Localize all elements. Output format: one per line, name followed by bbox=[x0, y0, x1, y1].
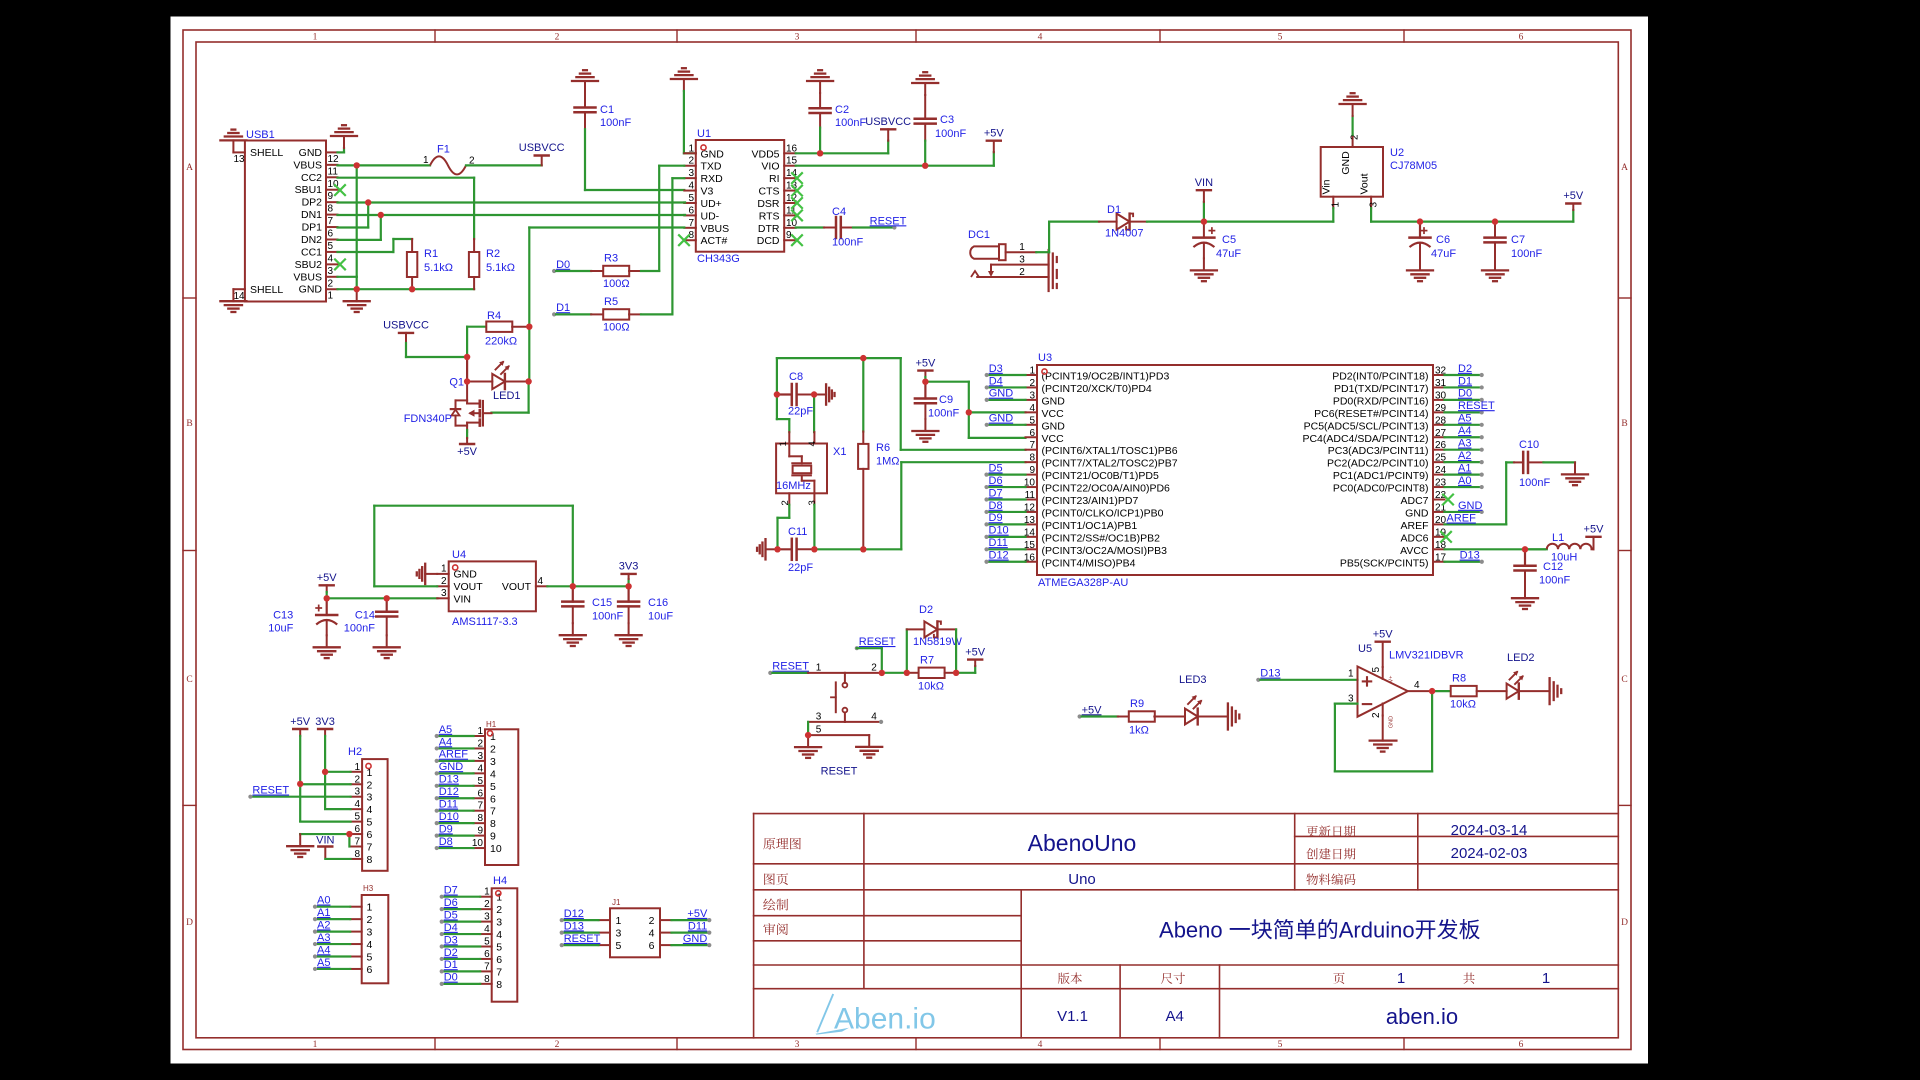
svg-text:100nF: 100nF bbox=[1539, 575, 1570, 587]
power flag USBVCC at R4 bbox=[383, 320, 429, 358]
wire U3 pin15 bbox=[987, 548, 1026, 550]
svg-text:1: 1 bbox=[1019, 242, 1025, 253]
wire gate net left bbox=[492, 412, 529, 414]
capacitor C8 bbox=[777, 384, 814, 405]
svg-text:D13: D13 bbox=[564, 920, 584, 932]
power flag +5V below Q1 bbox=[457, 438, 478, 458]
svg-text:+5V: +5V bbox=[984, 128, 1005, 140]
svg-text:D1: D1 bbox=[444, 959, 458, 971]
svg-text:2: 2 bbox=[484, 899, 490, 910]
svg-text:RESET: RESET bbox=[252, 785, 289, 797]
title label 绘制 bbox=[763, 898, 788, 910]
svg-text:22pF: 22pF bbox=[788, 406, 813, 418]
svg-text:2: 2 bbox=[1371, 712, 1382, 718]
junction VDD5/C2 bbox=[817, 150, 823, 156]
svg-text:B: B bbox=[1621, 419, 1627, 429]
svg-text:4: 4 bbox=[367, 804, 373, 816]
svg-text:1: 1 bbox=[1331, 202, 1342, 208]
junction DP2/DP1 bbox=[365, 199, 371, 205]
svg-text:UD-: UD- bbox=[701, 210, 720, 222]
title label 尺寸 bbox=[1161, 973, 1185, 984]
svg-text:1: 1 bbox=[1542, 970, 1550, 987]
wire XTAL1 right down bbox=[900, 358, 902, 450]
svg-text:C13: C13 bbox=[273, 610, 293, 622]
wire U3 pin11 bbox=[987, 498, 1026, 500]
wire C9 to VCC bbox=[925, 382, 968, 438]
svg-text:5: 5 bbox=[1029, 415, 1035, 426]
svg-text:7: 7 bbox=[367, 842, 373, 854]
svg-text:5.1kΩ: 5.1kΩ bbox=[486, 262, 515, 274]
wire U2 Vin down bbox=[1332, 208, 1334, 221]
svg-text:A2: A2 bbox=[1458, 450, 1471, 462]
wire XTAL2 rail bbox=[814, 548, 901, 550]
svg-text:22pF: 22pF bbox=[788, 562, 813, 574]
svg-text:7: 7 bbox=[328, 216, 334, 227]
svg-text:6: 6 bbox=[484, 949, 490, 960]
wire +5V to C14 bbox=[327, 597, 387, 599]
net label D9 (U3 pin13) bbox=[984, 512, 1002, 526]
net label D6 (H4) bbox=[440, 897, 458, 911]
svg-text:GND: GND bbox=[1042, 420, 1066, 432]
wire D2 up left bbox=[906, 629, 908, 672]
svg-text:PC4(ADC4/SDA/PCINT12): PC4(ADC4/SDA/PCINT12) bbox=[1302, 433, 1428, 445]
wire H1 pin6 bbox=[437, 797, 474, 799]
svg-text:3: 3 bbox=[367, 927, 373, 939]
svg-text:1kΩ: 1kΩ bbox=[1129, 725, 1149, 737]
wire H2 gnd down bbox=[299, 833, 301, 835]
svg-text:A1: A1 bbox=[317, 907, 330, 919]
svg-text:R8: R8 bbox=[1452, 673, 1466, 685]
wire VBUS pin11 bbox=[338, 164, 431, 166]
svg-text:X1: X1 bbox=[833, 446, 846, 458]
svg-text:2: 2 bbox=[688, 156, 694, 167]
svg-text:5: 5 bbox=[328, 241, 334, 252]
wire U3 pin28 bbox=[1445, 424, 1482, 426]
svg-text:RI: RI bbox=[769, 173, 780, 185]
svg-text:C14: C14 bbox=[355, 610, 375, 622]
resistor R2 bbox=[469, 239, 479, 289]
net label D12 (H1) bbox=[435, 786, 459, 800]
svg-text:R5: R5 bbox=[604, 296, 618, 308]
wire button pin2 bbox=[845, 672, 882, 674]
svg-text:CH343G: CH343G bbox=[697, 253, 740, 265]
svg-text:PC3(ADC3/PCINT11): PC3(ADC3/PCINT11) bbox=[1328, 445, 1429, 457]
svg-text:DP1: DP1 bbox=[302, 222, 323, 234]
svg-text:AMS1117-3.3: AMS1117-3.3 bbox=[452, 616, 518, 628]
net label GND (J1) bbox=[683, 933, 712, 947]
svg-text:7: 7 bbox=[688, 218, 694, 229]
ground under C14 bbox=[374, 635, 400, 658]
wire H3 pin5 bbox=[315, 955, 350, 957]
svg-text:+5V: +5V bbox=[1373, 629, 1394, 641]
svg-text:2: 2 bbox=[490, 743, 496, 755]
svg-text:Vin: Vin bbox=[1321, 179, 1333, 194]
wire J1 pin3 bbox=[562, 931, 599, 933]
wire DN1 pin7 bbox=[338, 214, 686, 216]
LED LED2 bbox=[1507, 671, 1524, 699]
power flag +5V (L1) bbox=[1587, 537, 1601, 550]
svg-text:D5: D5 bbox=[444, 909, 458, 921]
svg-text:D7: D7 bbox=[444, 885, 458, 897]
svg-text:D11: D11 bbox=[688, 920, 707, 932]
svg-text:B: B bbox=[186, 419, 192, 429]
junction AVCC/C12 bbox=[1522, 546, 1528, 552]
net label GND (U3 pin3) bbox=[985, 388, 1014, 402]
svg-text:3: 3 bbox=[477, 751, 483, 762]
net label D11 (H1) bbox=[435, 799, 458, 813]
svg-text:3: 3 bbox=[328, 266, 334, 277]
wire R5 to RXD bbox=[641, 313, 672, 315]
svg-text:USBVCC: USBVCC bbox=[865, 116, 911, 128]
title label 物料编码 bbox=[1306, 873, 1355, 885]
wire C2 down to VDD5 row bbox=[819, 128, 821, 154]
svg-text:4: 4 bbox=[807, 441, 818, 446]
power flag +5V at VIO bbox=[984, 128, 1005, 166]
svg-text:6: 6 bbox=[354, 824, 360, 835]
svg-text:V3: V3 bbox=[701, 186, 714, 198]
svg-text:U4: U4 bbox=[452, 549, 466, 561]
svg-text:AREF: AREF bbox=[1400, 520, 1428, 532]
capacitor C7 bbox=[1485, 222, 1506, 259]
svg-text:CC2: CC2 bbox=[301, 172, 322, 184]
net label D7 (H4) bbox=[440, 885, 458, 899]
svg-text:D1: D1 bbox=[1107, 204, 1121, 216]
svg-text:C11: C11 bbox=[788, 526, 807, 538]
wire USBVCC to Q1 source bbox=[406, 356, 467, 358]
capacitor C9 bbox=[915, 382, 936, 419]
junction C13 bbox=[324, 595, 330, 601]
svg-text:PC2(ADC2/PCINT10): PC2(ADC2/PCINT10) bbox=[1327, 458, 1429, 470]
wire VCC pin6 bbox=[969, 437, 1026, 439]
wire AVCC to L1 bbox=[1525, 548, 1547, 550]
resistor R9 bbox=[1082, 711, 1155, 721]
wire pin2 to D2 junction bbox=[882, 672, 907, 674]
svg-text:CC1: CC1 bbox=[301, 246, 322, 258]
power flag 3V3 (H2) bbox=[315, 716, 335, 736]
svg-text:AREF: AREF bbox=[1447, 513, 1477, 525]
wire H1 pin7 bbox=[437, 810, 474, 812]
net label D10 (H1) bbox=[435, 811, 459, 825]
svg-text:A0: A0 bbox=[1458, 475, 1471, 487]
svg-text:RTS: RTS bbox=[759, 210, 780, 222]
wire H4 pin6 bbox=[442, 958, 481, 960]
svg-text:3: 3 bbox=[816, 712, 822, 723]
svg-text:A: A bbox=[186, 163, 193, 173]
junction C14 bbox=[384, 595, 390, 601]
svg-text:DCD: DCD bbox=[757, 235, 780, 247]
svg-text:ACT#: ACT# bbox=[701, 235, 728, 247]
wire CC1 pin4 bbox=[338, 251, 394, 253]
net label D2 (H4) bbox=[440, 947, 458, 961]
svg-text:A1: A1 bbox=[1458, 462, 1471, 474]
svg-text:U3: U3 bbox=[1038, 352, 1052, 364]
svg-text:FDN340P: FDN340P bbox=[404, 413, 452, 425]
wire J1 pin6 bbox=[672, 944, 710, 946]
wire LED1 cathode bbox=[505, 381, 529, 383]
svg-text:Abeno: Abeno bbox=[1159, 918, 1229, 943]
svg-text:1: 1 bbox=[688, 143, 694, 154]
wire VBUS net vertical bbox=[528, 327, 530, 382]
svg-text:Q1: Q1 bbox=[449, 377, 464, 389]
wire U3 pin23 bbox=[1445, 486, 1482, 488]
svg-text:D5: D5 bbox=[989, 462, 1003, 474]
junction VIN/C5 bbox=[1201, 218, 1207, 224]
wire U4 pin4 out bbox=[547, 585, 628, 587]
power flag +5V (U4) bbox=[317, 572, 338, 598]
junction R4 right bbox=[526, 324, 532, 330]
svg-text:AVCC: AVCC bbox=[1400, 545, 1429, 557]
net label A2 (U3 pin25) bbox=[1458, 450, 1484, 464]
junction LED1 right bbox=[525, 378, 531, 384]
ground above C1 bbox=[572, 70, 598, 93]
net label A1 (U3 pin24) bbox=[1458, 462, 1484, 476]
svg-text:LED3: LED3 bbox=[1179, 674, 1207, 686]
wire U3 pin20 AREF bbox=[1445, 462, 1507, 524]
connector J1 bbox=[599, 908, 672, 957]
IC U4 AMS1117-3.3 bbox=[437, 561, 547, 611]
wire H1 pin10 bbox=[437, 847, 474, 849]
svg-text:C12: C12 bbox=[1543, 561, 1563, 573]
svg-text:5: 5 bbox=[484, 937, 490, 948]
net label A5 (U3 pin28) bbox=[1458, 413, 1484, 427]
no-connect X on U1 pin11 bbox=[792, 210, 802, 220]
svg-text:R3: R3 bbox=[604, 253, 618, 265]
wire U3 pin1 bbox=[987, 374, 1026, 376]
svg-text:6: 6 bbox=[649, 940, 655, 952]
svg-text:8: 8 bbox=[1029, 453, 1035, 464]
svg-text:2: 2 bbox=[871, 663, 877, 674]
svg-text:+5V: +5V bbox=[457, 446, 478, 458]
svg-text:C8: C8 bbox=[789, 371, 803, 383]
wire Q1 drain down bbox=[466, 357, 468, 382]
svg-text:3: 3 bbox=[795, 1040, 800, 1050]
svg-text:D: D bbox=[1621, 918, 1628, 928]
junction RESET/pin2 bbox=[879, 670, 885, 676]
svg-text:2: 2 bbox=[354, 774, 360, 785]
ground at USB1 pin13 bbox=[220, 130, 246, 153]
svg-text:4: 4 bbox=[871, 712, 877, 723]
svg-text:9: 9 bbox=[477, 826, 483, 837]
capacitor C13 polarized bbox=[316, 598, 337, 635]
wire VCC pin4 bbox=[969, 411, 1026, 413]
power flag +5V (U5) bbox=[1373, 629, 1394, 668]
svg-text:1: 1 bbox=[1348, 669, 1354, 680]
svg-text:3: 3 bbox=[795, 33, 800, 43]
svg-text:D6: D6 bbox=[444, 897, 458, 909]
svg-text:U1: U1 bbox=[697, 128, 711, 140]
resistor R7 bbox=[907, 668, 945, 678]
wire gate net down bbox=[527, 382, 529, 413]
svg-text:5: 5 bbox=[354, 812, 360, 823]
wire X1 pin4 down from C8 gnd bbox=[813, 395, 815, 433]
wire H4 pin8 bbox=[442, 983, 481, 985]
svg-text:100nF: 100nF bbox=[592, 611, 623, 623]
svg-text:3: 3 bbox=[441, 588, 447, 599]
connector H3 bbox=[350, 895, 388, 983]
wire CC2 vertical to R2 bbox=[473, 178, 475, 239]
svg-text:2: 2 bbox=[367, 779, 373, 791]
capacitor C16 bbox=[618, 586, 639, 623]
svg-text:PC0(ADC0/PCINT8): PC0(ADC0/PCINT8) bbox=[1333, 483, 1429, 495]
wire GND pin1 row bbox=[338, 288, 475, 290]
svg-text:RESET: RESET bbox=[821, 766, 858, 778]
svg-text:CTS: CTS bbox=[759, 186, 780, 198]
wire pin5 down bbox=[868, 735, 870, 747]
svg-text:A3: A3 bbox=[317, 932, 330, 944]
junction 3V3/H2 pin1 bbox=[322, 769, 328, 775]
svg-text:+5V: +5V bbox=[290, 716, 311, 728]
junction C16/3V3 bbox=[625, 583, 631, 589]
svg-text:H1: H1 bbox=[486, 720, 497, 729]
wire U3 pin18 AVCC bbox=[1445, 548, 1545, 550]
svg-text:VOUT: VOUT bbox=[454, 581, 484, 593]
svg-text:C16: C16 bbox=[648, 597, 668, 609]
svg-text:7: 7 bbox=[477, 801, 483, 812]
capacitor C2 bbox=[810, 93, 831, 128]
svg-text:U5: U5 bbox=[1358, 643, 1372, 655]
svg-text:LMV321IDBVR: LMV321IDBVR bbox=[1389, 650, 1464, 662]
no-connect X on SBU1 pin9 bbox=[335, 185, 345, 195]
svg-text:V+: V+ bbox=[1388, 676, 1394, 683]
wire VDD5 row bbox=[796, 152, 889, 154]
wire C1 to V3 bbox=[585, 129, 684, 190]
power flag +5V (H2) bbox=[290, 716, 311, 736]
IC U3 ATMEGA328P-AU bbox=[1024, 365, 1447, 575]
svg-text:7: 7 bbox=[484, 961, 490, 972]
svg-text:D12: D12 bbox=[439, 786, 459, 798]
svg-text:D4: D4 bbox=[989, 375, 1003, 387]
net label RESET (button) bbox=[855, 636, 896, 650]
svg-text:5: 5 bbox=[1278, 33, 1283, 43]
net label D4 (U3 pin2) bbox=[985, 375, 1003, 389]
wire H2 pin2 bbox=[300, 783, 350, 785]
wire C8 left vertical bbox=[776, 358, 778, 394]
svg-text:R4: R4 bbox=[487, 310, 501, 322]
wire U3 pin27 bbox=[1445, 436, 1482, 438]
svg-text:C4: C4 bbox=[832, 206, 846, 218]
svg-text:1: 1 bbox=[423, 155, 429, 166]
svg-text:D2: D2 bbox=[444, 947, 458, 959]
resistor R8 bbox=[1432, 686, 1507, 696]
wire CC1 jog bbox=[393, 239, 412, 252]
svg-text:USBVCC: USBVCC bbox=[383, 320, 429, 332]
svg-text:VCC: VCC bbox=[1042, 433, 1065, 445]
power flag VIN bbox=[1195, 177, 1213, 222]
svg-text:8: 8 bbox=[328, 204, 334, 215]
svg-text:PC1(ADC1/PCINT9): PC1(ADC1/PCINT9) bbox=[1333, 470, 1429, 482]
junction C11 right bbox=[811, 546, 817, 552]
svg-text:A3: A3 bbox=[1458, 438, 1471, 450]
net label A4 (U3 pin27) bbox=[1458, 425, 1484, 439]
wire +5V row bbox=[1371, 221, 1573, 223]
svg-text:100nF: 100nF bbox=[832, 237, 863, 249]
svg-text:1: 1 bbox=[441, 564, 447, 575]
svg-text:3: 3 bbox=[367, 792, 373, 804]
ground at USB1 pin12 bbox=[331, 125, 357, 148]
net label D13 (H1) bbox=[435, 774, 459, 788]
svg-text:1: 1 bbox=[484, 887, 490, 898]
svg-text:GND: GND bbox=[439, 761, 464, 773]
wire U3 pin3 bbox=[987, 399, 1026, 401]
svg-text:5: 5 bbox=[367, 952, 373, 964]
net label D3 (H4) bbox=[440, 934, 458, 948]
svg-text:(PCINT2/SS#/OC1B)PB2: (PCINT2/SS#/OC1B)PB2 bbox=[1042, 532, 1161, 544]
net label A3 (U3 pin26) bbox=[1458, 438, 1484, 452]
wire button pin1 bbox=[772, 672, 845, 674]
svg-text:SHELL: SHELL bbox=[250, 147, 283, 159]
net label GND (H1) bbox=[435, 761, 464, 775]
connector H4 bbox=[480, 887, 517, 1002]
no-connect X on U1 pin8 bbox=[679, 235, 689, 245]
svg-text:D12: D12 bbox=[989, 550, 1009, 562]
svg-text:ADC6: ADC6 bbox=[1400, 532, 1428, 544]
ground right of LED3 bbox=[1228, 704, 1239, 730]
svg-text:AbenoUno: AbenoUno bbox=[1028, 830, 1137, 856]
svg-text:100nF: 100nF bbox=[1519, 477, 1550, 489]
net label D0 (U3 pin30) bbox=[1458, 388, 1484, 402]
svg-text:D9: D9 bbox=[439, 823, 453, 835]
junction VIO/C3 bbox=[922, 163, 928, 169]
svg-text:Uno: Uno bbox=[1068, 871, 1096, 888]
capacitor C11 bbox=[778, 539, 815, 560]
junction VBUS bbox=[354, 162, 360, 168]
wire D1 to VIN junction bbox=[1147, 221, 1204, 223]
svg-text:100Ω: 100Ω bbox=[603, 322, 630, 334]
wire U3 pin29 bbox=[1445, 411, 1482, 413]
svg-text:D0: D0 bbox=[444, 972, 458, 984]
svg-text:GND: GND bbox=[683, 933, 708, 945]
net label +5V (J1) bbox=[687, 908, 711, 922]
net label A2 (H3) bbox=[313, 919, 331, 933]
wire H1 pin4 bbox=[437, 772, 474, 774]
svg-text:H2: H2 bbox=[348, 746, 362, 758]
svg-text:5: 5 bbox=[496, 942, 502, 954]
wire H4 pin2 bbox=[442, 908, 481, 910]
net label A4 (H3) bbox=[313, 944, 331, 958]
svg-text:VBUS: VBUS bbox=[293, 159, 322, 171]
ground above U2 bbox=[1340, 93, 1366, 116]
svg-text:7: 7 bbox=[354, 837, 360, 848]
svg-text:ADC7: ADC7 bbox=[1400, 495, 1428, 507]
transistor Q1 FDN340P bbox=[451, 382, 492, 433]
svg-text:10uF: 10uF bbox=[268, 623, 293, 635]
resistor R3 bbox=[556, 266, 641, 276]
svg-text:D13: D13 bbox=[1260, 668, 1280, 680]
wire pin3 down bbox=[807, 722, 809, 735]
svg-text:2: 2 bbox=[1350, 134, 1361, 140]
title label 审阅 bbox=[763, 923, 788, 935]
svg-text:4: 4 bbox=[484, 924, 490, 935]
svg-text:DP2: DP2 bbox=[302, 197, 323, 209]
svg-text:100Ω: 100Ω bbox=[603, 278, 630, 290]
svg-text:1MΩ: 1MΩ bbox=[876, 456, 900, 468]
ground under U5 bbox=[1370, 741, 1397, 752]
svg-text:6: 6 bbox=[367, 829, 373, 841]
svg-text:VOUT: VOUT bbox=[502, 581, 532, 593]
wire VBUS vertical bbox=[356, 165, 358, 276]
no-connect X on U1 pin9 bbox=[792, 235, 802, 245]
svg-text:2: 2 bbox=[328, 278, 334, 289]
junction C9 top bbox=[922, 379, 928, 385]
power flag +5V (R7) bbox=[968, 660, 982, 673]
net label D8 (U3 pin12) bbox=[984, 500, 1002, 514]
svg-text:A4: A4 bbox=[317, 944, 330, 956]
svg-text:D6: D6 bbox=[989, 475, 1003, 487]
wire H1 pin5 bbox=[437, 785, 474, 787]
svg-text:D3: D3 bbox=[444, 934, 458, 946]
svg-text:3: 3 bbox=[1019, 255, 1025, 266]
svg-text:(PCINT0/CLKO/ICP1)PB0: (PCINT0/CLKO/ICP1)PB0 bbox=[1042, 507, 1164, 519]
